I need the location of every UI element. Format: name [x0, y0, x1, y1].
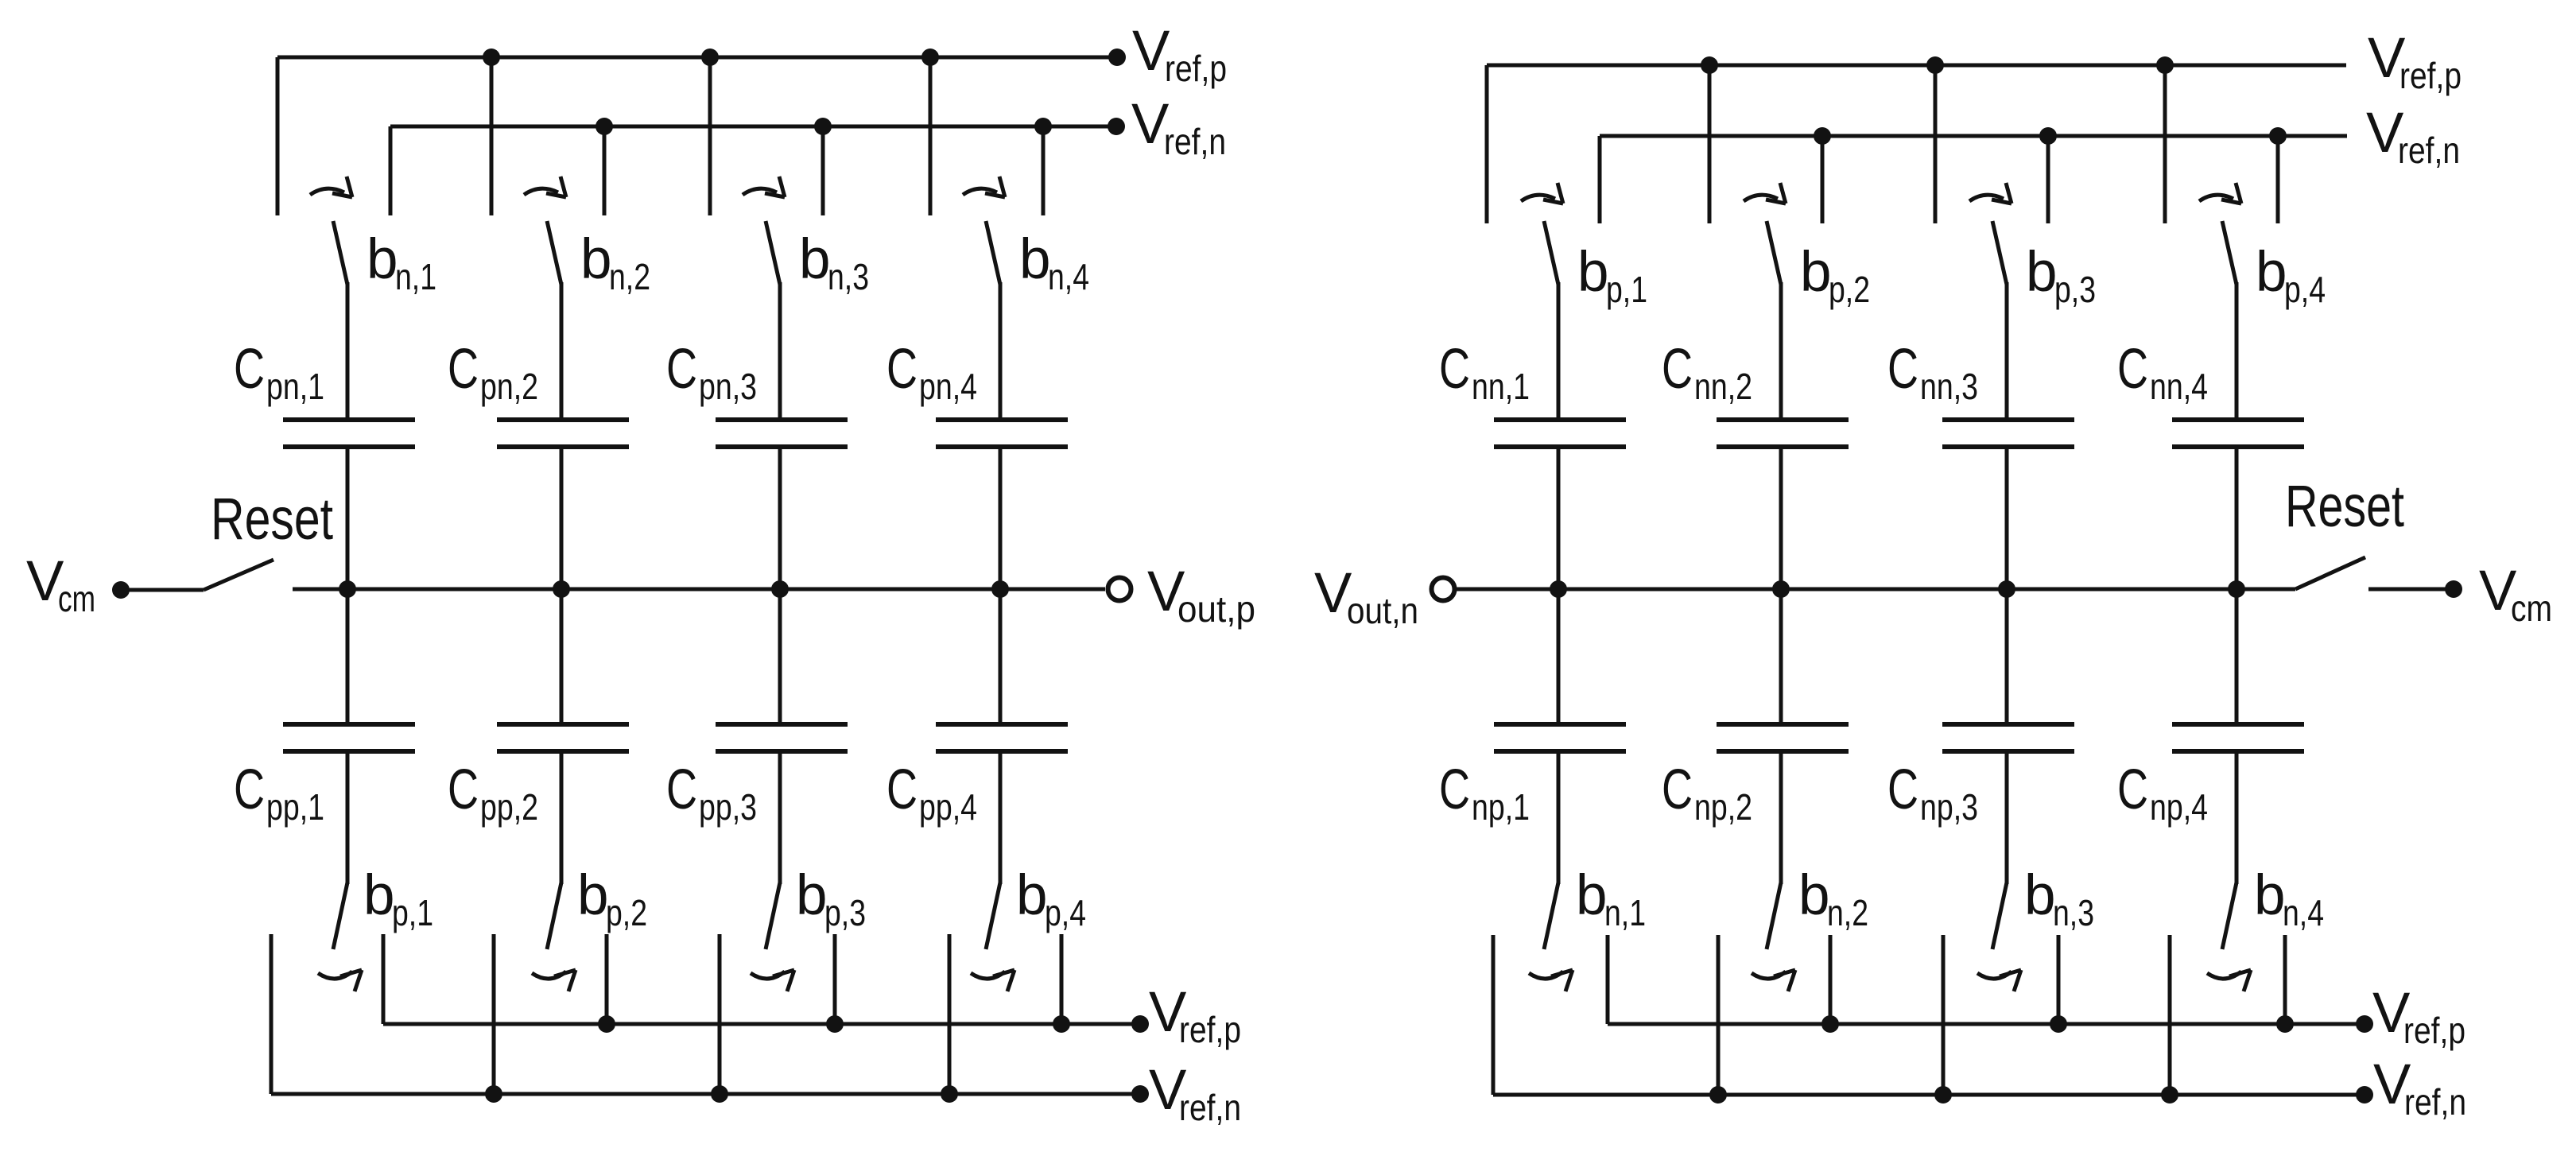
label bn,3	[799, 228, 869, 297]
wire Vref,n stub from switch bp,2	[492, 934, 496, 1094]
svg-text:b: b	[2256, 241, 2287, 304]
svg-text:np,2: np,2	[1694, 786, 1752, 828]
junction Vref,p / stub to switch bn,2	[483, 48, 500, 215]
capacitor Cnn,3	[1942, 282, 2074, 589]
junction Vref,p / stub to switch bp,3 (right)	[1926, 56, 1944, 223]
junction Vref,p bottom / switch bn,3 (right)	[2050, 1015, 2067, 1033]
svg-text:C: C	[1887, 338, 1918, 401]
capacitor Cpn,3	[716, 282, 848, 589]
label Vref,n (bottom left)	[1149, 1059, 1241, 1128]
label Vref,p (bottom left)	[1149, 981, 1241, 1050]
junction Vref,p bottom / switch bn,4 (right)	[2276, 1015, 2294, 1033]
wire Vref,n stub from switch bp,4	[948, 934, 952, 1094]
label Vref,n (top left)	[1131, 93, 1226, 162]
switch bp,4 arrow (right)	[2199, 183, 2241, 204]
switch bp,1 blade	[333, 882, 347, 949]
switch bn,4 arrow (right)	[2207, 970, 2251, 991]
wire Vref,p stub from switch bp,3	[833, 934, 837, 1024]
svg-text:C: C	[2117, 758, 2148, 821]
capacitor Cnp,3	[1942, 589, 2074, 884]
svg-text:n,2: n,2	[1827, 892, 1868, 933]
switch bp,1 arrow (right)	[1521, 183, 1563, 204]
svg-text:n,4: n,4	[2283, 892, 2324, 933]
label bp,2 (right)	[1800, 241, 1870, 310]
svg-text:out,p: out,p	[1177, 588, 1255, 630]
switch bn,1 arrow (right)	[1529, 970, 1573, 991]
svg-text:b: b	[1798, 864, 1830, 927]
svg-text:ref,p: ref,p	[1165, 48, 1227, 89]
svg-text:p,1: p,1	[392, 892, 433, 933]
wire Vref,n corner stub from switch bn,1 (right)	[1492, 935, 1496, 1095]
svg-text:p,3: p,3	[2054, 269, 2096, 310]
junction Vref,p bottom / switch bp,3	[826, 1015, 844, 1033]
svg-text:np,4: np,4	[2150, 786, 2208, 828]
svg-text:cm: cm	[2511, 588, 2552, 629]
junction Vref,n bottom / switch bn,3 (right)	[1934, 1086, 1952, 1104]
label bp,2	[577, 864, 647, 933]
svg-text:C: C	[886, 338, 918, 401]
svg-text:Reset: Reset	[2285, 473, 2404, 539]
svg-text:n,1: n,1	[395, 256, 436, 297]
svg-text:Reset: Reset	[211, 486, 333, 552]
svg-text:b: b	[580, 228, 612, 291]
label Vref,n (top right)	[2366, 102, 2460, 171]
wire Vref,p corner stub from switch bn,1 (right)	[1606, 935, 1610, 1024]
label Cnn,4	[2117, 338, 2208, 407]
svg-text:pn,2: pn,2	[480, 366, 538, 407]
svg-text:ref,n: ref,n	[2404, 1081, 2466, 1123]
switch bp,3 blade	[766, 882, 780, 949]
junction Vref,p / stub to switch bp,2 (right)	[1701, 56, 1718, 223]
svg-text:cm: cm	[58, 578, 95, 619]
capacitor Cnn,1	[1494, 282, 1626, 589]
wire Vref,p stub from switch bp,2	[605, 934, 609, 1024]
svg-text:n,1: n,1	[1604, 892, 1646, 933]
svg-text:b: b	[2254, 864, 2286, 927]
label bp,3 (right)	[2026, 241, 2096, 310]
label Cnp,4	[2117, 758, 2208, 828]
terminal dot Vref,n bottom (right)	[2356, 1086, 2373, 1104]
switch bn,4 blade (right)	[2222, 882, 2237, 949]
junction Vref,n bottom / switch bn,2 (right)	[1709, 1086, 1727, 1104]
label Cpn,1	[234, 338, 324, 407]
label Cnn,1	[1439, 338, 1530, 407]
label bn,2	[580, 228, 650, 297]
label Vref,n (bottom right)	[2373, 1053, 2466, 1123]
switch bp,2 blade (right)	[1767, 221, 1781, 285]
svg-text:nn,3: nn,3	[1920, 366, 1978, 407]
junction Vref,n / stub to switch bp,2 (right)	[1814, 127, 1831, 223]
switch bn,2 arrow	[524, 176, 566, 197]
label Vcm (left)	[26, 550, 95, 619]
junction Vref,n / stub to switch bp,3 (right)	[2039, 127, 2057, 223]
junction node Vout,n / branch 3	[1998, 580, 2015, 598]
wire Vref,p stub from switch bn,2 (right)	[1829, 935, 1833, 1024]
svg-text:C: C	[1662, 338, 1693, 401]
capacitor Cpp,4	[936, 589, 1068, 884]
svg-text:pp,4: pp,4	[919, 786, 977, 828]
switch bp,4 blade	[986, 882, 1000, 949]
svg-text:nn,2: nn,2	[1694, 366, 1752, 407]
svg-text:ref,p: ref,p	[1179, 1009, 1241, 1050]
svg-text:np,3: np,3	[1920, 786, 1978, 828]
label bn,3 (right)	[2024, 864, 2094, 933]
label Cnn,2	[1662, 338, 1752, 407]
label Vref,p (top right)	[2368, 27, 2462, 96]
svg-text:p,4: p,4	[2284, 269, 2326, 310]
svg-text:p,3: p,3	[824, 892, 866, 933]
svg-text:b: b	[367, 228, 398, 291]
capacitor Cnp,2	[1717, 589, 1849, 884]
svg-text:ref,n: ref,n	[2398, 130, 2460, 171]
junction Vref,n / stub to switch bn,3	[814, 118, 832, 215]
junction node Vout,n / branch 1	[1550, 580, 1567, 598]
svg-text:p,1: p,1	[1606, 269, 1647, 310]
switch bn,2 blade	[547, 221, 561, 285]
wire Vref,n top rail (left half)	[390, 125, 1116, 129]
switch bn,3 blade	[766, 221, 780, 285]
wire Vref,n corner stub to switch bn,1	[389, 126, 393, 215]
capacitor Cnp,4	[2172, 589, 2304, 884]
svg-text:b: b	[1016, 864, 1048, 927]
label bn,4 (right)	[2254, 864, 2324, 933]
label Reset (left)	[211, 486, 333, 552]
svg-text:C: C	[234, 758, 265, 821]
label bn,4	[1019, 228, 1089, 297]
junction node Vout,p / branch 1	[339, 580, 356, 598]
svg-text:n,4: n,4	[1048, 256, 1089, 297]
svg-text:b: b	[796, 864, 828, 927]
svg-text:b: b	[799, 228, 831, 291]
svg-text:pp,1: pp,1	[266, 786, 324, 828]
svg-text:pp,3: pp,3	[699, 786, 757, 828]
terminal Vout,p open circle	[1108, 578, 1131, 601]
terminal Vout,n open circle	[1432, 578, 1455, 601]
svg-text:b: b	[363, 864, 395, 927]
switch bn,2 arrow (right)	[1752, 970, 1795, 991]
capacitor Cpp,2	[497, 589, 629, 884]
junction Vref,p / stub to switch bn,3	[701, 48, 719, 215]
label Cpp,3	[666, 758, 757, 828]
label bn,1	[367, 228, 436, 297]
wire Vref,n stub from switch bn,2 (right)	[1717, 935, 1721, 1095]
svg-text:b: b	[2024, 864, 2056, 927]
svg-text:n,3: n,3	[2053, 892, 2094, 933]
switch bn,1 blade	[333, 221, 347, 285]
wire Vref,p bottom rail (left half)	[383, 1022, 1140, 1026]
switch Reset blade (right)	[2295, 557, 2365, 589]
junction node Vout,p / branch 3	[771, 580, 789, 598]
svg-text:n,3: n,3	[828, 256, 869, 297]
junction Vref,p / stub to switch bp,4 (right)	[2156, 56, 2174, 223]
switch bn,1 blade (right)	[1544, 882, 1558, 949]
switch bn,2 blade (right)	[1767, 882, 1781, 949]
label Cnp,1	[1439, 758, 1530, 828]
label Cpn,3	[666, 338, 757, 407]
svg-text:C: C	[448, 338, 479, 401]
terminal dot Vcm (right)	[2445, 580, 2462, 598]
junction Vref,p bottom / switch bp,4	[1053, 1015, 1070, 1033]
svg-text:pn,3: pn,3	[699, 366, 757, 407]
svg-text:b: b	[1577, 241, 1609, 304]
label Vref,p (top left)	[1132, 20, 1227, 89]
label Cpp,2	[448, 758, 538, 828]
capacitor Cpn,2	[497, 282, 629, 589]
switch bp,4 blade (right)	[2222, 221, 2237, 285]
svg-text:b: b	[2026, 241, 2058, 304]
terminal dot Vcm (left)	[112, 581, 130, 599]
wire Vref,n bottom rail (left half)	[271, 1092, 1140, 1096]
svg-text:b: b	[1019, 228, 1051, 291]
switch bn,3 blade (right)	[1992, 882, 2007, 949]
wire Vref,p stub from switch bn,4 (right)	[2283, 935, 2287, 1024]
capacitor Cpn,1	[283, 282, 415, 589]
svg-text:C: C	[666, 338, 697, 401]
junction Vref,p / stub to switch bn,4	[921, 48, 939, 215]
label Vcm (right)	[2479, 560, 2552, 629]
svg-text:C: C	[448, 758, 479, 821]
label Cnp,2	[1662, 758, 1752, 828]
label bp,3	[796, 864, 866, 933]
junction Vref,n bottom / switch bp,2	[485, 1085, 502, 1103]
switch bp,2 arrow	[532, 970, 576, 991]
wire Vref,n corner stub to switch bp,1 (right)	[1598, 136, 1602, 223]
label Vout,n	[1314, 562, 1418, 631]
wire Vout,p rail (left half)	[293, 588, 1105, 592]
wire Vref,n stub from switch bp,3	[718, 934, 722, 1094]
label Cnn,3	[1887, 338, 1978, 407]
switch bp,3 arrow (right)	[1969, 183, 2012, 204]
switch bn,4 blade	[986, 221, 1000, 285]
svg-text:b: b	[1576, 864, 1608, 927]
label Cpn,2	[448, 338, 538, 407]
junction Vref,p bottom / switch bn,2 (right)	[1821, 1015, 1839, 1033]
svg-text:C: C	[666, 758, 697, 821]
svg-text:nn,1: nn,1	[1472, 366, 1530, 407]
junction Vref,n bottom / switch bn,4 (right)	[2161, 1086, 2178, 1104]
svg-text:C: C	[1887, 758, 1918, 821]
switch bn,3 arrow (right)	[1977, 970, 2021, 991]
wire Vref,p corner stub from switch bp,1	[382, 934, 386, 1024]
capacitor Cpn,4	[936, 282, 1068, 589]
junction node Vout,n / branch 4	[2228, 580, 2245, 598]
switch bn,1 arrow	[310, 176, 352, 197]
capacitor Cpp,3	[716, 589, 848, 884]
svg-text:C: C	[1662, 758, 1693, 821]
terminal dot Vref,p top (left)	[1108, 48, 1126, 66]
svg-text:b: b	[1800, 241, 1832, 304]
label bp,1 (right)	[1577, 241, 1647, 310]
junction node Vout,p / branch 4	[991, 580, 1009, 598]
switch bp,1 blade (right)	[1544, 221, 1558, 285]
svg-text:p,2: p,2	[1829, 269, 1870, 310]
wire Vref,p top rail (left half)	[277, 56, 1117, 60]
switch bp,3 arrow	[751, 970, 794, 991]
label Cpp,1	[234, 758, 324, 828]
wire Vref,n corner stub from switch bp,1	[270, 934, 274, 1094]
capacitor Cnn,4	[2172, 282, 2304, 589]
label Cpn,4	[886, 338, 977, 407]
wire Vref,n stub from switch bn,4 (right)	[2168, 935, 2172, 1095]
switch bn,3 arrow	[743, 176, 785, 197]
capacitor Cnp,1	[1494, 589, 1626, 884]
switch bp,2 blade	[547, 882, 561, 949]
wire Vref,p corner stub to switch bn,1	[276, 57, 280, 215]
label Vref,p (bottom right)	[2372, 982, 2465, 1051]
wire Vref,p top rail (right half)	[1487, 64, 2346, 68]
junction Vref,n / stub to switch bp,4 (right)	[2269, 127, 2287, 223]
svg-text:out,n: out,n	[1347, 590, 1418, 631]
wire Vref,p corner stub to switch bp,1 (right)	[1485, 65, 1489, 223]
svg-text:pp,2: pp,2	[480, 786, 538, 828]
svg-text:n,2: n,2	[609, 256, 650, 297]
svg-text:pn,1: pn,1	[266, 366, 324, 407]
label Cnp,3	[1887, 758, 1978, 828]
svg-text:b: b	[577, 864, 609, 927]
wire Vref,n stub from switch bn,3 (right)	[1942, 935, 1946, 1095]
junction Vref,n bottom / switch bp,3	[711, 1085, 728, 1103]
svg-text:p,2: p,2	[606, 892, 647, 933]
capacitor Cpp,1	[283, 589, 415, 884]
wire Vref,n top rail (right half)	[1600, 134, 2347, 138]
switch bn,4 arrow	[963, 176, 1005, 197]
svg-text:C: C	[1439, 758, 1470, 821]
svg-text:C: C	[2117, 338, 2148, 401]
junction Vref,n bottom / switch bp,4	[941, 1085, 958, 1103]
label bp,4 (right)	[2256, 241, 2326, 310]
junction node Vout,n / branch 2	[1772, 580, 1790, 598]
svg-text:nn,4: nn,4	[2150, 366, 2208, 407]
svg-text:ref,n: ref,n	[1179, 1087, 1241, 1128]
switch bp,3 blade (right)	[1992, 221, 2007, 285]
wire Vref,p stub from switch bp,4	[1060, 934, 1064, 1024]
svg-text:ref,n: ref,n	[1164, 121, 1226, 162]
svg-text:C: C	[234, 338, 265, 401]
wire Vcm to Reset switch (left)	[121, 588, 204, 592]
switch bp,2 arrow (right)	[1744, 183, 1786, 204]
switch bp,1 arrow	[318, 970, 362, 991]
terminal dot Vref,p bottom (right)	[2356, 1015, 2373, 1033]
wire Reset switch to Vcm (right)	[2368, 588, 2454, 592]
terminal dot Vref,n top (left)	[1108, 118, 1125, 135]
svg-text:p,4: p,4	[1045, 892, 1086, 933]
junction Vref,p bottom / switch bp,2	[598, 1015, 615, 1033]
junction Vref,n / stub to switch bn,4	[1034, 118, 1052, 215]
svg-text:np,1: np,1	[1472, 786, 1530, 828]
label bn,1 (right)	[1576, 864, 1646, 933]
switch Reset blade (left)	[204, 560, 274, 590]
svg-text:ref,p: ref,p	[2403, 1010, 2465, 1051]
capacitor Cnn,2	[1717, 282, 1849, 589]
label Vout,p	[1147, 560, 1255, 630]
wire Vout,n rail (right half)	[1457, 588, 2295, 592]
svg-text:ref,p: ref,p	[2399, 55, 2462, 96]
label bp,4	[1016, 864, 1086, 933]
label bn,2 (right)	[1798, 864, 1868, 933]
svg-text:pn,4: pn,4	[919, 366, 977, 407]
switch bp,4 arrow	[971, 970, 1014, 991]
svg-text:C: C	[886, 758, 918, 821]
svg-text:C: C	[1439, 338, 1470, 401]
wire Vref,p stub from switch bn,3 (right)	[2057, 935, 2061, 1024]
junction Vref,n / stub to switch bn,2	[596, 118, 613, 215]
terminal dot Vref,n bottom (left)	[1131, 1085, 1149, 1103]
wire Vref,n bottom rail (right half)	[1493, 1093, 2365, 1097]
junction node Vout,p / branch 2	[553, 580, 570, 598]
label Cpp,4	[886, 758, 977, 828]
label Reset (right)	[2285, 473, 2404, 539]
terminal dot Vref,p bottom (left)	[1131, 1015, 1149, 1033]
wire Vref,p bottom rail (right half)	[1608, 1022, 2365, 1026]
label bp,1	[363, 864, 433, 933]
